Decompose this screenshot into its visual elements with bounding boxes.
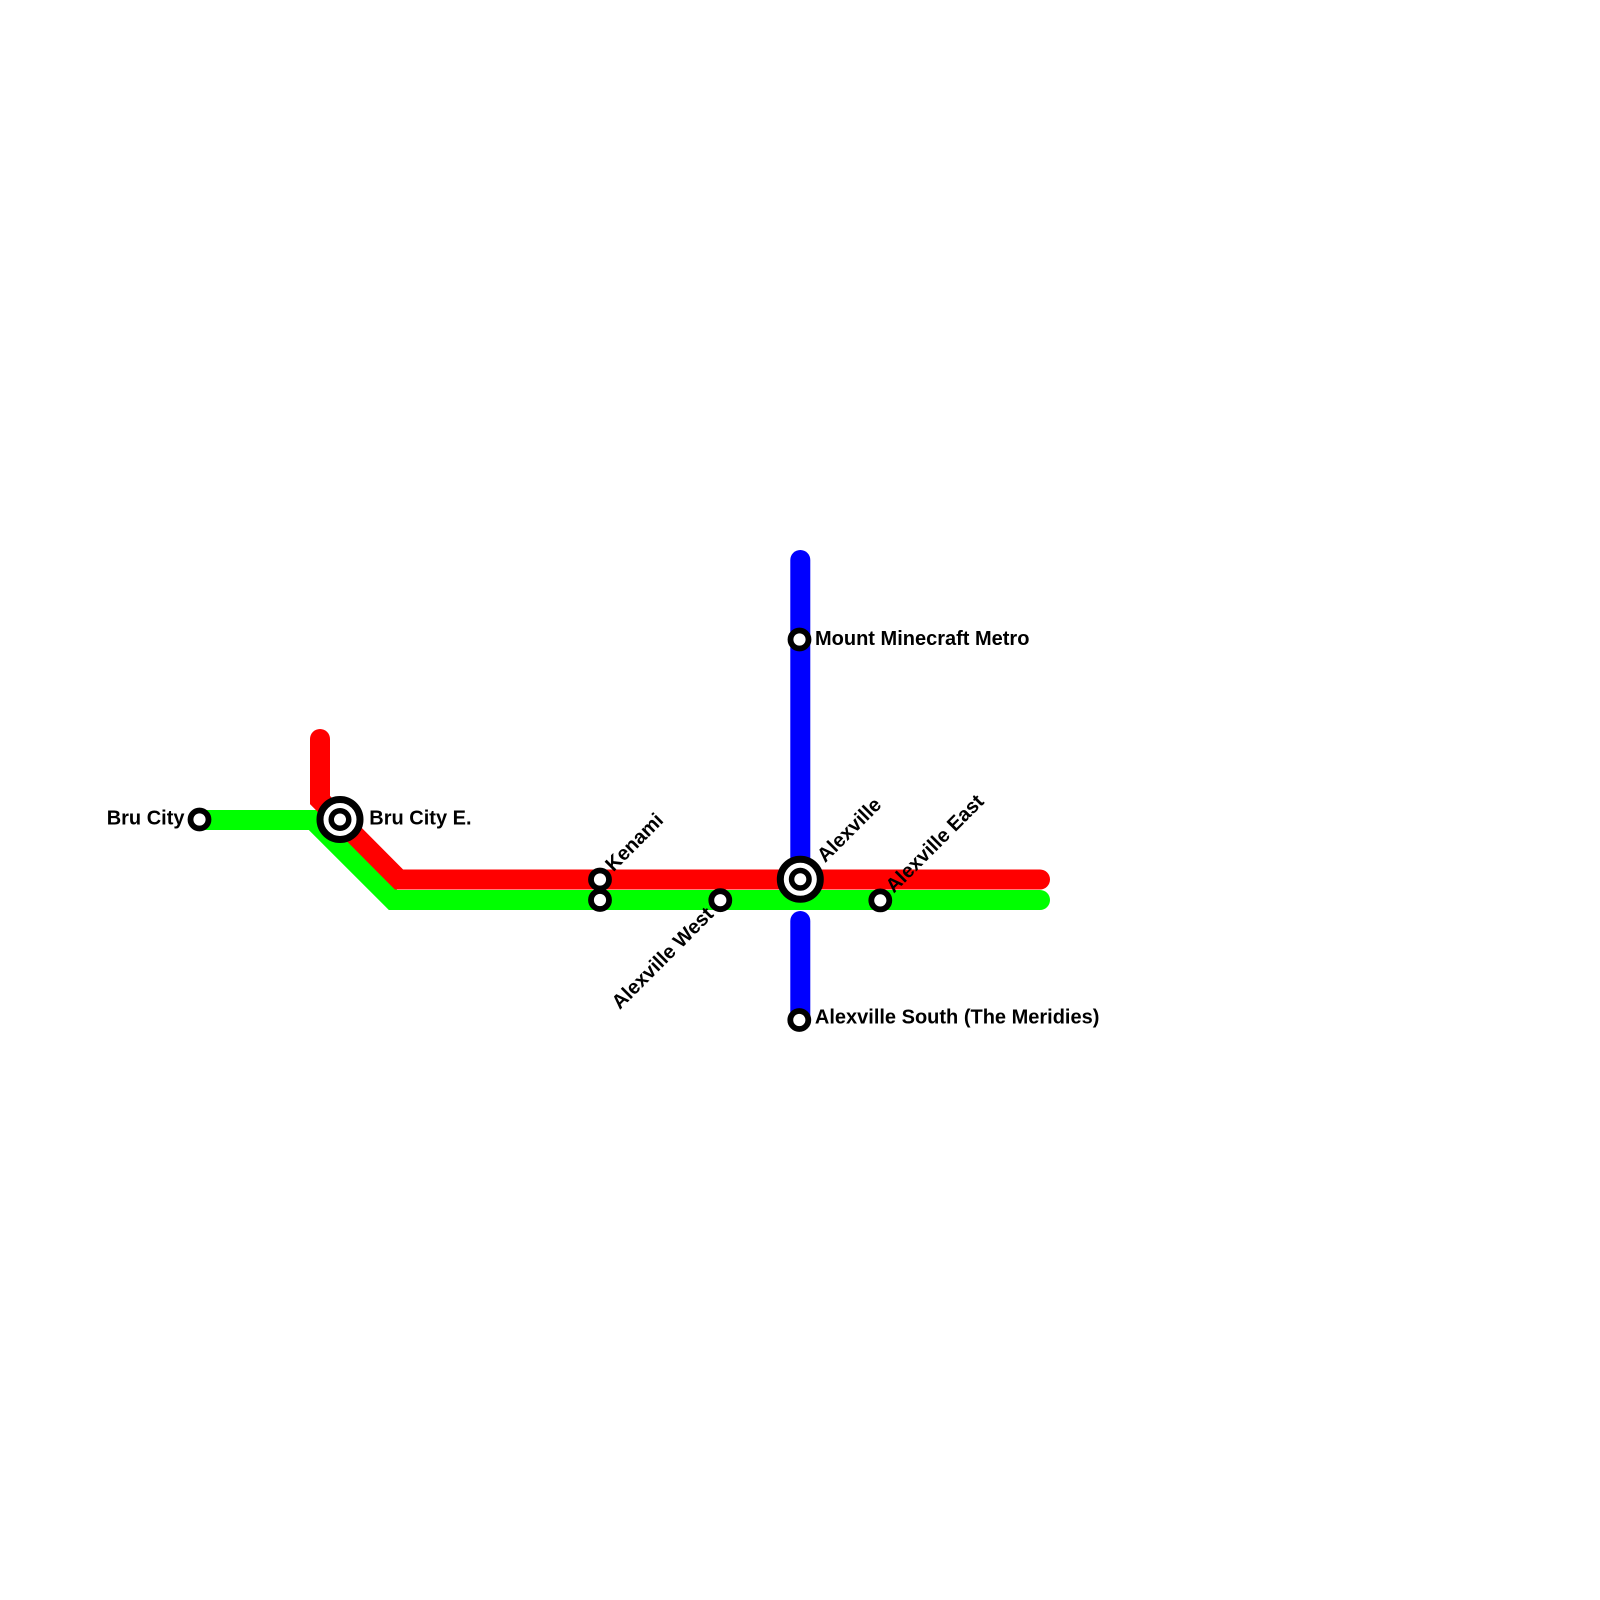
blue line lower segment [790,921,810,1019]
interchange Bru City E. [320,800,360,840]
svg-text:Bru City: Bru City [107,808,186,830]
svg-text:Alexville South (The Meridies): Alexville South (The Meridies) [815,1006,1100,1028]
station Kenami (green line) [591,891,609,909]
svg-text:Mount Minecraft Metro: Mount Minecraft Metro [815,628,1029,650]
station Alexville South [790,1011,808,1029]
station Bru City [191,811,209,829]
svg-text:Bru City E.: Bru City E. [369,807,471,829]
green line [200,820,1040,900]
station Alexville East [871,891,889,909]
interchange Alexville [780,859,820,899]
red line [320,739,1040,880]
station Alexville West [711,891,729,909]
blue line upper segment (Mount Minecraft Metro line) [790,560,810,880]
station Mount Minecraft Metro [791,631,809,649]
station Kenami (red line) [591,871,609,889]
